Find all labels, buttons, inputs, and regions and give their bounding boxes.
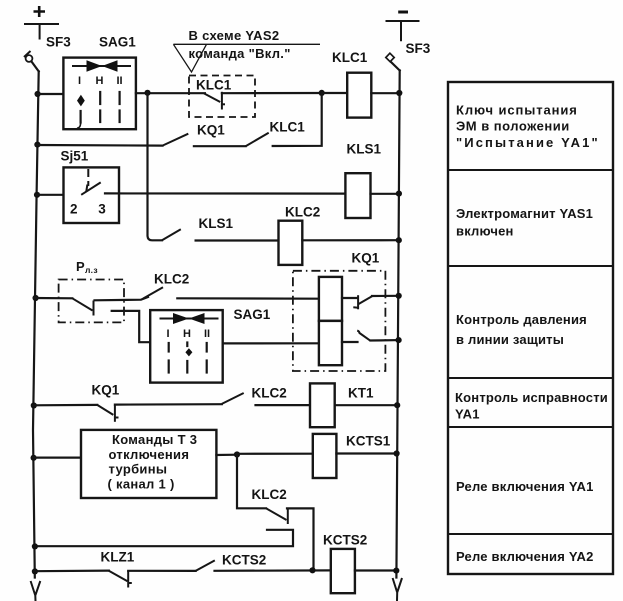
wire junction to KCTS1 coil: [237, 453, 313, 455]
contact KLC2 row4: [143, 287, 163, 298]
right rail bottom arrow: [393, 578, 402, 601]
Sj51 dashed stem: [87, 169, 89, 186]
wire junction to coil KLC1: [322, 92, 348, 94]
table row1 text: [456, 103, 600, 151]
svg-text:I: I: [167, 328, 170, 340]
svg-text:3: 3: [98, 202, 106, 217]
svg-text:Реле включения YA2: Реле включения YA2: [456, 549, 594, 564]
svg-text:H: H: [183, 328, 191, 340]
node right rail KQ1 lower: [396, 337, 402, 343]
svg-text:SAG1: SAG1: [234, 307, 271, 322]
wire KCTS1 coil to right rail: [336, 452, 396, 454]
node left rail hook: [32, 543, 38, 549]
svg-text:в линии защиты: в линии защиты: [456, 332, 564, 347]
wire row8 to coil: [215, 569, 331, 572]
svg-text:II: II: [204, 328, 210, 340]
relay coil KT1: [310, 383, 335, 427]
dash-dot box P l.z: [59, 280, 124, 323]
wire row1 rail to SAG1: [36, 93, 64, 95]
table row4 text: [455, 390, 608, 422]
svg-text:KLC1: KLC1: [196, 78, 232, 93]
svg-text:турбины: турбины: [109, 462, 168, 477]
wire SAG1-2 to KQ1 coil2: [223, 342, 319, 344]
contact KLS1: [162, 229, 181, 240]
annotation table frame: [448, 82, 613, 574]
SAG1-2 diamond pointer: [185, 348, 192, 356]
node junction before KCTS1: [234, 451, 240, 457]
callout underline and leader: [173, 44, 320, 72]
left rail bottom arrow: [31, 581, 41, 601]
table row3 text: [456, 312, 587, 347]
svg-text:SF3: SF3: [406, 41, 431, 56]
svg-text:Sj51: Sj51: [61, 149, 89, 164]
wire row5 mid: [115, 403, 222, 406]
svg-text:KLS1: KLS1: [199, 216, 234, 231]
svg-text:YA1: YA1: [455, 407, 480, 422]
wire riser from row1 node down to KLS1 contact: [148, 93, 163, 241]
relay coil KLC2: [279, 221, 303, 265]
relay coil KQ1 lower: [319, 321, 342, 365]
block Commands T3 turbine trip: [81, 430, 216, 498]
wire KCTS2 coil to right rail: [355, 569, 397, 571]
svg-text:Контроль давления: Контроль давления: [456, 312, 587, 327]
svg-text:I: I: [78, 75, 81, 87]
svg-text:KCTS2: KCTS2: [323, 533, 367, 548]
node right rail KLC2: [396, 237, 402, 243]
contact KQ1 row2: [163, 134, 189, 146]
right bus rail: [396, 71, 399, 578]
node row8 left rail tap: [32, 568, 38, 574]
node row6 left rail tap: [30, 455, 36, 461]
breaker SF3 left: [24, 51, 39, 71]
svg-text:KQ1: KQ1: [352, 251, 380, 266]
contact KQ1 row5: [97, 405, 118, 422]
wire row2 right and riser to row1: [273, 93, 322, 146]
node right rail KCTS1: [394, 450, 400, 456]
svg-text:Электромагнит YAS1: Электромагнит YAS1: [456, 206, 593, 221]
plus terminal: [24, 6, 59, 40]
relay coil KLS1: [345, 173, 370, 218]
table row2 text: [456, 206, 593, 239]
wire SAG1 to junction: [136, 92, 189, 94]
wire KLS1 contact to KLC2 coil: [196, 239, 279, 241]
wire KLC2 contact to KQ1 coil1: [177, 297, 319, 300]
contact KLZ1: [109, 571, 132, 588]
wire row3 Sj51 to KLS1 coil (crosses riser, no junction): [105, 192, 345, 194]
svg-text:II: II: [117, 75, 123, 87]
svg-text:( канал 1 ): ( канал 1 ): [108, 477, 175, 492]
wire row5 left: [33, 404, 97, 407]
relay coil KLC1: [347, 73, 371, 118]
node junction row1 right: [319, 90, 325, 96]
svg-text:KQ1: KQ1: [197, 123, 225, 138]
svg-text:SF3: SF3: [46, 35, 71, 50]
left bus rail: [33, 71, 39, 577]
branch P fixed terminal to SAG1 second box: [112, 311, 151, 342]
contact KLC1 in dashed box: [189, 92, 322, 110]
wire KLC2 coil to right rail: [302, 239, 399, 241]
wire row2 mid: [194, 145, 246, 147]
node A junction row1: [144, 90, 150, 96]
svg-text:2: 2: [70, 202, 78, 217]
node right rail row1: [396, 90, 402, 96]
svg-text:KLZ1: KLZ1: [101, 550, 135, 565]
SAG1 diamond pointer: [77, 95, 85, 107]
wire KLC2 contact fixed side down to bottom row: [287, 508, 314, 569]
svg-text:KCTS2: KCTS2: [222, 553, 266, 568]
wire KT1 coil to right rail: [335, 404, 398, 406]
breaker SF3 right: [386, 53, 400, 70]
svg-text:KLC2: KLC2: [154, 272, 189, 287]
contact KLC2 row5: [222, 393, 244, 404]
wire after P contact: [95, 297, 149, 300]
relay coil KCTS1: [313, 434, 337, 478]
svg-text:KLC2: KLC2: [252, 386, 287, 401]
contact Sj51: [81, 182, 101, 194]
node junction bottom row: [309, 567, 315, 573]
node row5 left rail tap: [31, 402, 37, 408]
wire coil KLC1 to right rail: [371, 92, 400, 94]
relay coil KQ1 upper: [319, 277, 342, 321]
svg-text:В схеме YAS2: В схеме YAS2: [189, 28, 280, 43]
minus terminal: [386, 12, 420, 41]
wire KLS1 coil to right rail: [371, 193, 400, 195]
contact KLC1 row2: [246, 133, 269, 146]
svg-text:Ключ испытания: Ключ испытания: [456, 103, 578, 118]
SAG1 bowtie arrows: [72, 60, 131, 71]
node right rail KQ1 upper: [396, 293, 402, 299]
node right rail bottom: [393, 568, 399, 574]
svg-text:Контроль исправности: Контроль исправности: [455, 390, 608, 405]
contact KLC2 bottom: [266, 508, 288, 524]
wire row3 into Sj51: [36, 194, 81, 196]
svg-text:KCTS1: KCTS1: [346, 434, 391, 449]
node row4 left rail tap: [33, 295, 39, 301]
SAG1-2 dashed position lines: [169, 343, 207, 373]
dash-dot box KQ1: [293, 271, 386, 371]
node row2 left rail tap: [34, 142, 40, 148]
contact KCTS2: [196, 560, 215, 571]
svg-text:KT1: KT1: [348, 386, 374, 401]
wire row5 to KT1 coil: [256, 404, 311, 406]
node row1 left rail tap: [35, 91, 41, 97]
node right rail row3: [396, 191, 402, 197]
wire row8 left: [34, 569, 109, 572]
node right rail KT1: [394, 402, 400, 408]
contact KQ1 upper to rail: [342, 295, 399, 309]
svg-text:KLC1: KLC1: [270, 120, 306, 135]
SAG1-2 bowtie arrows: [160, 313, 219, 324]
wire row4 rail to contact: [34, 297, 72, 299]
wire row8 mid: [128, 570, 195, 572]
svg-text:KLS1: KLS1: [347, 142, 382, 157]
wire command box to junction: [216, 454, 237, 456]
node row3 left rail tap: [34, 192, 40, 198]
relay coil KCTS2: [331, 549, 355, 593]
svg-text:включен: включен: [456, 224, 514, 239]
switch SAG1 second box: [150, 310, 223, 383]
switch Sj51 box: [64, 167, 120, 223]
svg-text:KLC1: KLC1: [332, 50, 368, 65]
svg-text:Команды Т 3: Команды Т 3: [112, 432, 197, 447]
SAG1 dashed position lines: [78, 92, 120, 128]
wire drop junction to KLC2 contact: [237, 455, 266, 509]
svg-text:ЭМ в положении: ЭМ в положении: [456, 119, 570, 134]
svg-text:отключения: отключения: [109, 447, 190, 462]
svg-text:KLC2: KLC2: [285, 205, 320, 220]
contact KQ1 lower to rail: [342, 331, 399, 342]
svg-text:Реле включения YA1: Реле включения YA1: [456, 479, 594, 494]
switch SAG1 box: [63, 58, 135, 130]
svg-text:H: H: [96, 75, 104, 87]
svg-text:SAG1: SAG1: [99, 35, 136, 50]
svg-text:"Испытание YA1": "Испытание YA1": [456, 135, 600, 150]
svg-text:KQ1: KQ1: [92, 383, 120, 398]
wire row2 left: [36, 144, 163, 147]
wire row6 rail to command box: [33, 457, 81, 459]
wire hook lower terminal to left rail: [35, 530, 293, 546]
svg-text:KLC2: KLC2: [252, 487, 287, 502]
contact P l.z: [72, 298, 93, 315]
dashed box KLC1 (in YAS2 scheme): [189, 76, 255, 118]
